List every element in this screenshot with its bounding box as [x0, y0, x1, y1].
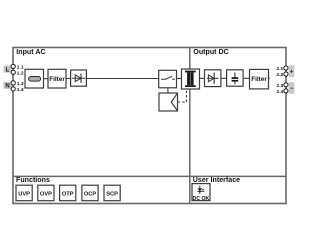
function block OVP: [38, 185, 54, 201]
terminal 2.4: [276, 89, 288, 95]
wire transformer to output rectifier: [200, 77, 205, 79]
wire rectifier to switch: [86, 78, 158, 80]
terminal 2.1: [276, 66, 288, 72]
svg-text:OVP: OVP: [40, 191, 52, 197]
function block OTP: [60, 185, 76, 201]
switch S1 (PWM chopper): [159, 70, 177, 88]
svg-text:UVP: UVP: [18, 191, 30, 197]
wire switch to transformer: [177, 78, 182, 80]
controller U1 (PWM control): [159, 93, 178, 111]
svg-text:L: L: [6, 67, 10, 73]
svg-text:1.3: 1.3: [17, 81, 24, 87]
polarity label +: [289, 65, 295, 77]
terminal block label L: [4, 66, 12, 74]
feedback dashed wire controller to transformer: [178, 90, 187, 102]
wire switch to controller: [167, 88, 169, 93]
terminal block label N: [4, 82, 12, 90]
fuse F1: [25, 69, 44, 88]
wire capacitor to output filter: [243, 77, 249, 79]
terminal 1.1: [11, 64, 24, 70]
terminal 1.3: [11, 81, 24, 87]
divider above Functions / User Interface strip: [13, 175, 286, 177]
svg-text:+: +: [290, 69, 294, 75]
EMI filter block (input): [48, 69, 66, 88]
svg-text:1.2: 1.2: [17, 70, 24, 76]
svg-text:DC OK: DC OK: [193, 196, 210, 202]
svg-text:2.1: 2.1: [276, 66, 283, 72]
DC OK indicator block: [192, 184, 210, 201]
output rectifier diode D2: [205, 70, 221, 87]
function block UVP: [16, 185, 32, 201]
LED DC OK: [198, 186, 205, 194]
svg-text:Filter: Filter: [49, 76, 65, 83]
transformer T1: [182, 69, 200, 89]
svg-text:Functions: Functions: [16, 176, 50, 184]
function block OCP: [82, 185, 98, 201]
svg-text:OTP: OTP: [62, 191, 74, 197]
wire output rectifier to capacitor: [221, 77, 227, 79]
polarity label −: [289, 82, 295, 94]
rectifier diode D1: [71, 70, 87, 86]
svg-text:−: −: [290, 86, 294, 92]
svg-text:Filter: Filter: [251, 76, 267, 83]
svg-text:2.4: 2.4: [276, 89, 283, 95]
terminal 2.3: [276, 83, 288, 89]
svg-text:User Interface: User Interface: [193, 176, 240, 184]
terminal 2.2: [276, 72, 288, 78]
wire filter to rectifier: [66, 78, 71, 80]
svg-text:Output DC: Output DC: [193, 48, 228, 56]
svg-text:SCP: SCP: [106, 191, 118, 197]
wire fuse to filter: [44, 78, 49, 80]
svg-text:1.1: 1.1: [17, 64, 24, 70]
svg-text:2.2: 2.2: [276, 72, 283, 78]
svg-text:N: N: [5, 84, 9, 90]
svg-text:1.4: 1.4: [17, 87, 24, 93]
terminal 1.4: [11, 87, 24, 93]
svg-text:2.3: 2.3: [276, 83, 283, 89]
smoothing capacitor C1: [227, 70, 244, 86]
terminal 1.2: [11, 70, 24, 76]
svg-text:Input AC: Input AC: [16, 48, 45, 56]
svg-text:OCP: OCP: [84, 191, 97, 197]
section divider between Input AC and Output DC: [189, 48, 191, 204]
output filter block: [250, 69, 270, 89]
function block SCP: [104, 185, 120, 201]
outer enclosure box: [13, 48, 286, 204]
